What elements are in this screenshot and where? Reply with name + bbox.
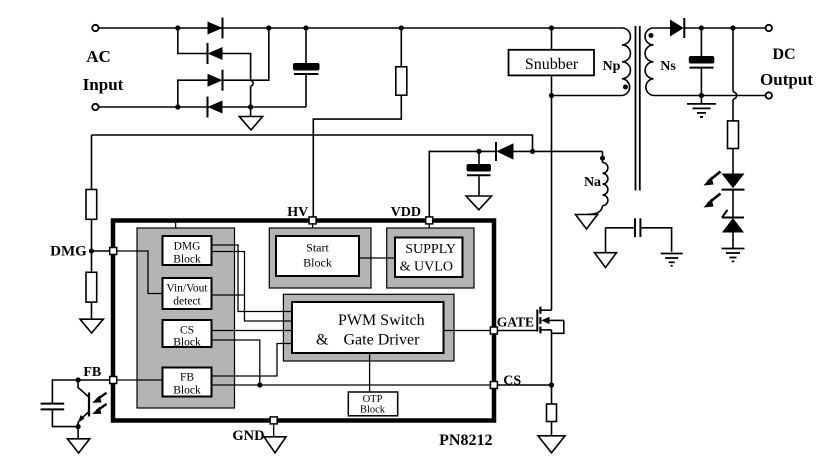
svg-text:AC: AC xyxy=(86,47,111,66)
svg-text:GATE: GATE xyxy=(497,315,534,330)
svg-text:OTP: OTP xyxy=(363,394,383,405)
svg-text:VDD: VDD xyxy=(391,205,421,220)
svg-text:DMG: DMG xyxy=(174,241,201,253)
svg-text:PN8212: PN8212 xyxy=(439,432,492,449)
svg-text:&: & xyxy=(316,332,329,349)
svg-text:Output: Output xyxy=(760,70,813,89)
svg-text:FB: FB xyxy=(180,372,194,384)
svg-text:Start: Start xyxy=(306,241,329,255)
svg-text:CS: CS xyxy=(503,374,521,389)
svg-text:Input: Input xyxy=(83,75,124,94)
svg-text:PWM Switch: PWM Switch xyxy=(338,312,425,329)
svg-text:detect: detect xyxy=(173,296,201,308)
svg-text:Np: Np xyxy=(603,59,621,74)
svg-text:Block: Block xyxy=(173,337,201,349)
svg-text:Na: Na xyxy=(584,175,601,190)
svg-text:HV: HV xyxy=(287,205,308,220)
svg-text:FB: FB xyxy=(83,365,101,380)
svg-text:Vin/Vout: Vin/Vout xyxy=(166,283,208,295)
svg-text:DMG: DMG xyxy=(50,244,87,260)
svg-text:DC: DC xyxy=(772,46,795,63)
svg-text:Snubber: Snubber xyxy=(525,56,579,73)
svg-text:Gate Driver: Gate Driver xyxy=(344,332,421,349)
svg-text:Block: Block xyxy=(173,385,201,397)
svg-text:Ns: Ns xyxy=(660,59,676,74)
svg-text:CS: CS xyxy=(180,325,194,337)
svg-text:SUPPLY: SUPPLY xyxy=(405,242,456,257)
svg-text:& UVLO: & UVLO xyxy=(400,260,453,275)
svg-text:GND: GND xyxy=(232,428,264,444)
svg-text:Block: Block xyxy=(173,254,201,266)
svg-text:Block: Block xyxy=(360,405,386,416)
svg-text:Block: Block xyxy=(303,256,332,270)
